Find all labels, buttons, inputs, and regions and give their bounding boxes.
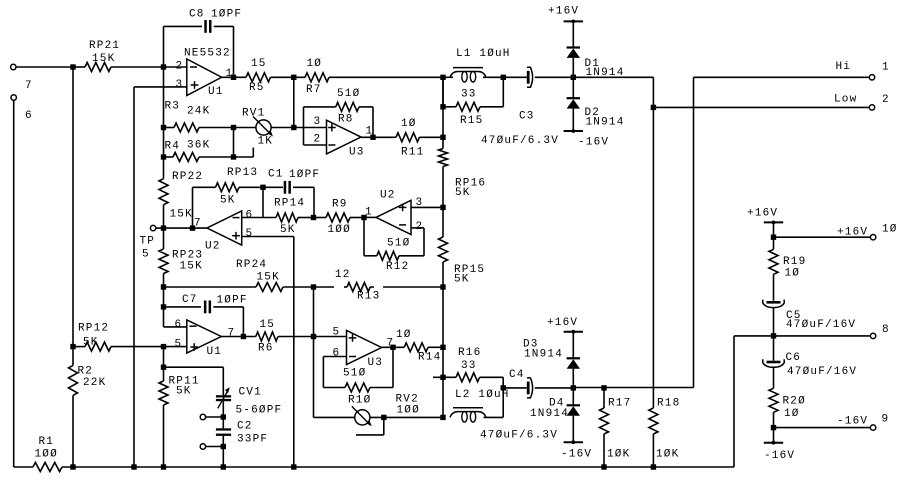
wire [156, 227, 207, 229]
node [311, 284, 316, 289]
svg-text:5: 5 [333, 327, 341, 339]
wire pin2 [164, 66, 187, 68]
node [161, 225, 166, 230]
svg-text:-16V: -16V [764, 450, 795, 462]
wire pin2 [304, 107, 327, 145]
svg-text:R2: R2 [78, 366, 94, 378]
node [70, 344, 75, 349]
svg-text:1ØPF: 1ØPF [289, 169, 320, 181]
node pin2 [161, 64, 166, 69]
svg-text:3: 3 [176, 79, 184, 91]
terminal 2 Low [834, 94, 890, 111]
wire out [361, 136, 396, 138]
wire out [221, 336, 256, 338]
wire [572, 109, 574, 131]
op-amp U3 second [333, 327, 395, 370]
node L1 left [440, 75, 445, 80]
op-amp U2 [194, 210, 253, 253]
wire [72, 67, 74, 347]
label RP23 [172, 250, 203, 273]
resistor RP14 [274, 198, 314, 237]
svg-text:1Ø: 1Ø [784, 408, 800, 420]
svg-text:15: 15 [260, 319, 276, 331]
svg-text:1K: 1K [258, 136, 274, 148]
potentiometer RV1 [234, 108, 294, 148]
wire [442, 167, 444, 238]
svg-text:U2: U2 [380, 190, 396, 202]
node [361, 215, 366, 220]
svg-text:9: 9 [882, 414, 890, 426]
resistor RP15 [439, 237, 486, 286]
wire -16V out [774, 427, 871, 429]
power +16V [747, 208, 783, 225]
resistor R1 [14, 436, 734, 472]
wire RV2 wiper [356, 417, 384, 435]
wire [313, 287, 315, 337]
svg-text:5K: 5K [220, 195, 236, 207]
node [161, 304, 166, 309]
wire pin5 [242, 236, 294, 238]
resistor R16 [433, 347, 503, 388]
node [601, 464, 606, 469]
svg-text:+16V: +16V [747, 208, 778, 220]
svg-text:Low: Low [834, 94, 857, 106]
wire [773, 308, 775, 361]
capacitor C2 [216, 421, 268, 446]
svg-text:R4: R4 [165, 141, 181, 153]
node [311, 334, 316, 339]
wire out [222, 76, 246, 78]
resistor R6 [256, 319, 314, 355]
node [311, 215, 316, 220]
resistor R14 [396, 329, 443, 364]
svg-text:C4: C4 [509, 369, 525, 381]
diode D3 1N914 [523, 339, 580, 369]
wire [163, 128, 165, 158]
terminal 8 [870, 324, 889, 339]
svg-text:R1Ø: R1Ø [348, 395, 371, 407]
resistor R18 [649, 398, 681, 468]
node [260, 185, 265, 190]
wire [442, 77, 444, 148]
wire out [364, 216, 376, 218]
svg-text:RP24: RP24 [236, 259, 267, 271]
node [381, 415, 386, 420]
wire [572, 58, 574, 98]
svg-text:R3: R3 [165, 101, 181, 113]
node [370, 135, 375, 140]
svg-text:-16V: -16V [837, 416, 868, 428]
svg-text:U2: U2 [205, 241, 221, 253]
wire [164, 307, 187, 327]
svg-text:33: 33 [461, 360, 477, 372]
svg-text:L2 1ØuH: L2 1ØuH [455, 389, 510, 401]
svg-text:L1 1ØuH: L1 1ØuH [456, 48, 511, 60]
svg-text:RP12: RP12 [78, 323, 109, 335]
inductor L1 [443, 48, 511, 82]
node U1 out [231, 75, 236, 80]
resistor R20 [769, 388, 806, 442]
svg-text:RP13: RP13 [227, 167, 258, 179]
svg-text:-16V: -16V [561, 449, 592, 461]
capacitor C4 [480, 369, 573, 442]
svg-text:R14: R14 [418, 352, 441, 364]
node [390, 345, 395, 350]
svg-text:22K: 22K [83, 377, 106, 389]
node [440, 135, 445, 140]
node [501, 385, 506, 390]
power +16V [548, 6, 583, 24]
node [231, 125, 236, 130]
svg-text:1ØPF: 1ØPF [211, 9, 242, 21]
svg-text:6: 6 [246, 210, 254, 222]
svg-text:24K: 24K [187, 106, 210, 118]
wire pin6 [242, 217, 276, 219]
wire pin5 [164, 346, 187, 348]
svg-text:R18: R18 [657, 398, 680, 410]
svg-text:1ØØ: 1ØØ [397, 405, 420, 417]
resistor RP12 [73, 323, 164, 352]
resistor RP16 [439, 149, 487, 200]
svg-text:R5: R5 [249, 82, 265, 94]
svg-text:5K: 5K [280, 224, 296, 236]
node [291, 125, 296, 130]
svg-text:R13: R13 [357, 291, 380, 303]
svg-text:Hi: Hi [836, 61, 852, 73]
resistor R12 [364, 238, 424, 274]
svg-text:1Ø: 1Ø [401, 118, 417, 130]
wire +16V out [774, 236, 871, 238]
svg-text:51Ø: 51Ø [337, 88, 360, 100]
svg-text:TP: TP [140, 236, 156, 248]
wire [233, 26, 235, 77]
resistor RP23 [159, 228, 168, 287]
svg-text:R2Ø: R2Ø [783, 396, 806, 408]
potentiometer RV2 [314, 394, 444, 427]
svg-text:15K: 15K [92, 53, 115, 65]
wire Hi [694, 76, 870, 78]
terminal 10 +16V [837, 224, 898, 240]
svg-text:1N914: 1N914 [524, 349, 563, 361]
node [440, 375, 445, 380]
node [221, 414, 226, 419]
wire [773, 367, 775, 388]
node [440, 205, 445, 210]
svg-text:5: 5 [142, 249, 150, 261]
resistor R11 [396, 118, 443, 159]
wire [773, 222, 775, 249]
terminal 1 Hi [836, 61, 890, 80]
svg-text:15K: 15K [180, 261, 203, 273]
wire [442, 347, 444, 417]
svg-text:R17: R17 [608, 398, 631, 410]
node [161, 464, 166, 469]
svg-text:6: 6 [25, 110, 33, 122]
resistor R8 [304, 88, 374, 126]
svg-text:33: 33 [461, 89, 477, 101]
wire [363, 218, 365, 256]
svg-text:1ØØ: 1ØØ [35, 449, 58, 461]
wire [652, 107, 654, 408]
wire [572, 416, 574, 443]
wire [222, 401, 224, 417]
wire [163, 26, 165, 67]
node [771, 425, 776, 430]
svg-text:47ØuF/16V: 47ØuF/16V [786, 319, 856, 331]
op-amp U1 [176, 48, 234, 99]
node [440, 345, 445, 350]
wire [442, 287, 444, 347]
wire [572, 21, 574, 47]
svg-text:+16V: +16V [548, 6, 579, 18]
svg-text:U3: U3 [349, 147, 365, 159]
resistor R3 [164, 101, 234, 133]
node [601, 385, 606, 390]
node [440, 104, 445, 109]
node [161, 154, 166, 159]
node [651, 464, 656, 469]
capacitor C6 [763, 352, 857, 378]
resistor RP13 [193, 167, 264, 207]
power -16V [764, 441, 795, 462]
svg-text:15K: 15K [170, 209, 193, 221]
capacitor C5 [763, 300, 856, 331]
svg-text:15: 15 [251, 58, 267, 70]
capacitor C3 [481, 67, 573, 147]
svg-text:CV1: CV1 [239, 387, 262, 399]
node [291, 464, 296, 469]
svg-text:7: 7 [194, 218, 202, 230]
svg-text:C1: C1 [268, 169, 284, 181]
node [571, 385, 576, 390]
diode D4 1N914 [530, 398, 580, 421]
svg-text:RV1: RV1 [242, 108, 265, 120]
node [771, 235, 776, 240]
resistor RP11 [159, 367, 200, 467]
node [221, 464, 226, 469]
op-amp U2 second [365, 190, 423, 235]
svg-text:51Ø: 51Ø [387, 238, 410, 250]
svg-text:5K: 5K [83, 337, 99, 349]
wire [222, 417, 224, 428]
wire [222, 436, 224, 447]
svg-text:RP14: RP14 [274, 198, 305, 210]
svg-text:1ØK: 1ØK [656, 449, 679, 461]
svg-text:6: 6 [175, 319, 183, 331]
resistor R7 [305, 58, 443, 96]
svg-text:1Ø: 1Ø [307, 58, 323, 70]
diode D1 1N914 [567, 48, 625, 80]
capacitor C1 [263, 169, 320, 194]
resistor RP22 [159, 157, 203, 228]
svg-text:C2: C2 [237, 421, 253, 433]
resistor RP24 [164, 259, 314, 292]
node [241, 334, 246, 339]
resistor R4 [164, 140, 234, 162]
resistor R10 [323, 368, 393, 407]
svg-text:7: 7 [228, 328, 236, 340]
svg-text:R11: R11 [401, 147, 424, 159]
wire pin5 [314, 336, 347, 338]
svg-text:R19: R19 [783, 256, 806, 268]
svg-text:C7: C7 [182, 294, 198, 306]
wire [572, 332, 574, 359]
node [291, 75, 296, 80]
svg-text:1Ø: 1Ø [785, 268, 801, 280]
svg-text:1N914: 1N914 [530, 408, 569, 420]
wire out [382, 346, 405, 348]
svg-text:R8: R8 [338, 114, 354, 126]
wire [206, 416, 224, 418]
svg-text:R15: R15 [460, 115, 483, 127]
op-amp U3 [314, 116, 374, 159]
wire pin3 [134, 86, 187, 88]
node [161, 344, 166, 349]
node [231, 154, 236, 159]
svg-text:R7: R7 [306, 84, 322, 96]
svg-text:5-6ØPF: 5-6ØPF [236, 405, 283, 417]
svg-text:47ØuF/6.3V: 47ØuF/6.3V [480, 430, 558, 442]
wire [442, 262, 444, 287]
svg-text:2: 2 [416, 221, 424, 233]
svg-text:33PF: 33PF [237, 434, 268, 446]
wire [262, 187, 264, 217]
wire [372, 107, 374, 137]
svg-text:R12: R12 [386, 261, 409, 273]
wire [16, 66, 73, 68]
diode D2 1N914 [567, 98, 625, 128]
wire [222, 447, 224, 468]
svg-text:5K: 5K [176, 386, 192, 398]
svg-text:47ØuF/16V: 47ØuF/16V [787, 366, 857, 378]
resistor R19 [769, 249, 806, 300]
svg-text:1ØPF: 1ØPF [217, 295, 248, 307]
wire Low [653, 106, 869, 108]
node [771, 333, 776, 338]
wire [163, 287, 165, 307]
node [161, 365, 166, 370]
resistor R13 [314, 269, 444, 303]
svg-text:5K: 5K [455, 187, 471, 199]
wire [293, 237, 295, 468]
wire [693, 77, 695, 387]
svg-text:5: 5 [246, 228, 254, 240]
resistor R2 [69, 347, 107, 467]
svg-text:U3: U3 [368, 357, 384, 369]
svg-text:5K: 5K [454, 274, 470, 286]
svg-text:C8: C8 [189, 9, 205, 21]
terminal 7 (input) [11, 64, 33, 92]
svg-text:51Ø: 51Ø [343, 368, 366, 380]
svg-text:R1: R1 [39, 436, 55, 448]
resistor R9 [314, 199, 365, 237]
wire [163, 67, 165, 128]
wire pin2 [411, 228, 424, 256]
svg-text:1ØØ: 1ØØ [328, 224, 351, 236]
terminal C2 tap [200, 444, 205, 449]
node at RP21 left [70, 64, 75, 69]
svg-text:C6: C6 [786, 352, 802, 364]
terminal TP 5 [140, 225, 156, 260]
svg-text:5: 5 [175, 339, 183, 351]
svg-text:15K: 15K [257, 272, 280, 284]
capacitor C8 [164, 9, 243, 33]
trimmer CV1 [216, 387, 282, 417]
wire [573, 77, 653, 107]
svg-text:1Ø: 1Ø [396, 329, 412, 341]
svg-text:47ØuF/6.3V: 47ØuF/6.3V [481, 135, 559, 147]
wire [573, 387, 693, 389]
svg-text:2: 2 [882, 94, 890, 106]
wire [133, 87, 135, 467]
wire [293, 77, 295, 127]
svg-text:12: 12 [335, 269, 351, 281]
node [131, 464, 136, 469]
wire [242, 307, 244, 337]
svg-text:U1: U1 [207, 346, 223, 358]
terminal 6 (input) [11, 95, 33, 122]
wire [206, 446, 224, 448]
resistor RP21 [73, 40, 164, 72]
terminal 9 -16V [837, 414, 889, 431]
op-amp U1 second [175, 319, 236, 358]
wire [392, 347, 394, 387]
wire [13, 100, 15, 467]
svg-text:R16: R16 [458, 347, 481, 359]
node [440, 284, 445, 289]
wire RV1 wiper [234, 148, 254, 158]
svg-text:NE5532: NE5532 [184, 48, 231, 60]
svg-text:1Ø: 1Ø [882, 224, 898, 236]
node [161, 284, 166, 289]
svg-text:1N914: 1N914 [586, 116, 625, 128]
wire pin3 [411, 206, 443, 208]
node [221, 444, 226, 449]
svg-text:3: 3 [314, 116, 322, 128]
terminal CV1 tap [200, 414, 205, 419]
wire [313, 187, 315, 217]
power +16V [547, 317, 583, 334]
wire [572, 369, 574, 406]
svg-text:2: 2 [314, 134, 322, 146]
svg-text:U1: U1 [208, 86, 224, 98]
svg-text:RP21: RP21 [89, 40, 120, 52]
wire 8 out [734, 335, 870, 337]
wire [192, 187, 194, 228]
svg-text:+16V: +16V [837, 227, 868, 239]
power -16V [561, 440, 592, 460]
resistor R15 [443, 77, 503, 127]
svg-text:6: 6 [333, 348, 341, 360]
inductor L2 [450, 388, 510, 422]
wire [164, 367, 224, 395]
resistor R17 [600, 388, 632, 467]
svg-text:RP22: RP22 [172, 171, 203, 183]
svg-text:36K: 36K [187, 140, 210, 152]
node [70, 464, 75, 469]
svg-text:R6: R6 [258, 343, 274, 355]
svg-text:R9: R9 [332, 199, 348, 211]
node [571, 75, 576, 80]
resistor R5 [246, 58, 305, 94]
power -16V [564, 129, 610, 148]
wire [733, 336, 735, 467]
node [651, 105, 656, 110]
node [501, 75, 506, 80]
capacitor C7 [164, 294, 248, 313]
svg-text:8: 8 [882, 324, 890, 336]
svg-text:C3: C3 [519, 111, 535, 123]
